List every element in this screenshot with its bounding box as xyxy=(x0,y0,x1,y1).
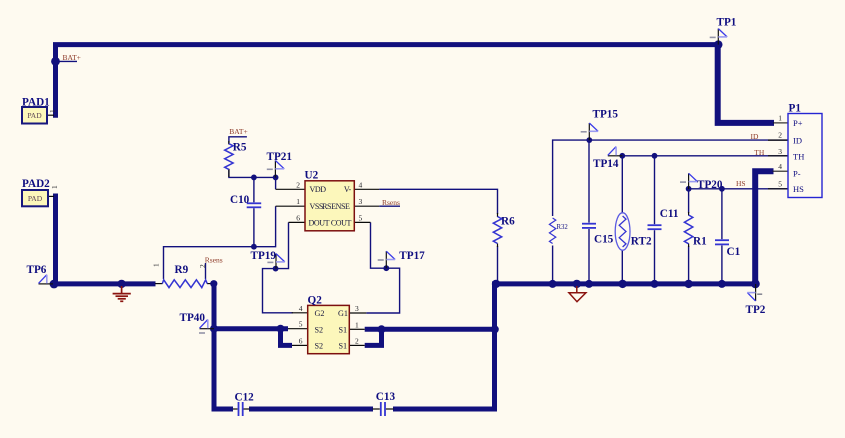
svg-text:TP17: TP17 xyxy=(399,250,425,262)
node GND-bus xyxy=(573,280,581,288)
testpoint flag TP1 xyxy=(710,29,727,45)
pin U2.1 VSS xyxy=(276,205,305,207)
pin R1 leads xyxy=(688,212,690,216)
svg-text:Q2: Q2 xyxy=(308,294,323,306)
node TP15 xyxy=(586,137,592,143)
svg-text:6: 6 xyxy=(296,213,300,222)
svg-text:4: 4 xyxy=(359,180,363,189)
ground earth (left) xyxy=(113,286,131,301)
pin U2.3 RSENSE xyxy=(354,205,379,207)
svg-text:U2: U2 xyxy=(305,170,319,182)
thermistor RT2 xyxy=(615,213,630,251)
svg-text:R9: R9 xyxy=(175,264,189,276)
svg-text:R1: R1 xyxy=(693,235,707,247)
svg-text:RT2: RT2 xyxy=(631,235,652,247)
testpoint flag TP14 xyxy=(608,147,623,156)
svg-text:TH: TH xyxy=(793,152,804,162)
svg-text:VDD: VDD xyxy=(310,185,327,194)
svg-text:TP2: TP2 xyxy=(746,304,766,316)
node TP14 xyxy=(619,153,625,159)
pin R6 leads xyxy=(497,213,499,217)
svg-text:S1: S1 xyxy=(339,325,348,334)
connector P1 body xyxy=(788,114,822,198)
svg-text:2: 2 xyxy=(778,131,782,140)
wire R9 right down and bottom row to C12 xyxy=(214,284,233,409)
svg-text:C11: C11 xyxy=(660,208,679,220)
wire PAD2 down to TP6/GND row xyxy=(56,194,156,284)
wire Q2 S2 U-loop to pin6 xyxy=(281,329,293,346)
testpoint flag TP19 xyxy=(267,254,284,269)
svg-text:PAD: PAD xyxy=(28,194,43,203)
capacitor C1 xyxy=(715,240,729,244)
wire RT2 top lead xyxy=(621,156,623,214)
svg-text:C1: C1 xyxy=(727,246,741,258)
svg-text:BAT+: BAT+ xyxy=(63,53,81,62)
resistor R9 (4-term shunt) xyxy=(162,280,207,288)
node Q2 S1 loop xyxy=(378,325,386,333)
node C15-bus xyxy=(585,280,593,288)
svg-text:R32: R32 xyxy=(557,224,569,231)
pin P1.5 xyxy=(768,188,788,190)
svg-text:V-: V- xyxy=(344,185,352,194)
node GND tap xyxy=(117,280,125,288)
node TP2 corner xyxy=(751,280,760,289)
svg-text:1: 1 xyxy=(48,109,57,113)
testpoint flag TP21 xyxy=(267,161,284,178)
node TP19 xyxy=(273,266,279,272)
svg-text:VSS: VSS xyxy=(310,202,323,211)
svg-text:2: 2 xyxy=(198,264,207,268)
testpoint flag TP40 xyxy=(200,320,215,329)
resistor R5 xyxy=(225,144,233,170)
svg-text:5: 5 xyxy=(299,320,303,329)
pin Q2.4 G2 xyxy=(292,312,308,314)
transistor Q2 body xyxy=(308,305,350,353)
svg-text:5: 5 xyxy=(778,179,782,188)
wire R5 bottom to TP21 to U2 VDD xyxy=(229,169,276,189)
pin U2.5 COUT xyxy=(354,221,370,223)
wire C11 leads xyxy=(654,156,656,224)
wire R9 right sense stub (Rsens) xyxy=(205,263,207,279)
svg-text:2: 2 xyxy=(355,336,359,345)
svg-text:6: 6 xyxy=(299,336,303,345)
wire TH net: TP14 to P1 pin3 xyxy=(622,155,788,157)
svg-text:1: 1 xyxy=(355,320,359,329)
svg-text:3: 3 xyxy=(778,147,782,156)
capacitor C10 xyxy=(247,203,262,207)
wire RT2 bottom lead xyxy=(621,250,623,284)
svg-text:COUT: COUT xyxy=(331,218,352,227)
wire C15 bottom lead xyxy=(588,229,590,284)
wire HS net: TP20 to P1 pin5 xyxy=(689,188,788,190)
svg-text:TP20: TP20 xyxy=(697,179,723,191)
wire BAT+ net stub at top rail xyxy=(56,60,78,62)
pin U2.2 VDD xyxy=(276,188,305,190)
svg-text:TP1: TP1 xyxy=(717,17,737,29)
svg-text:2: 2 xyxy=(296,180,300,189)
wire Q2 S2 row (pin5) xyxy=(214,326,288,331)
pin Q2.3 G1 xyxy=(349,312,366,314)
resistor R6 xyxy=(493,217,501,244)
pin U2.6 DOUT xyxy=(289,221,306,223)
node C10 top xyxy=(251,175,257,181)
pin P1.3 xyxy=(768,155,788,157)
wire GND bus xyxy=(492,281,758,286)
wire C13 right up to GND bus xyxy=(393,284,495,409)
wire bottom C12-C13 segment xyxy=(249,407,373,412)
svg-text:4: 4 xyxy=(299,304,303,313)
pin P1.2 xyxy=(768,139,788,141)
node R32-bus xyxy=(549,280,557,288)
svg-text:1: 1 xyxy=(778,114,782,123)
pin Q2.5 S2 xyxy=(288,328,308,330)
wire R1 bottom lead xyxy=(688,246,690,284)
node TP40 xyxy=(210,325,218,333)
pin P1.4 xyxy=(773,170,789,172)
node BAT+ stub xyxy=(51,57,60,66)
node S1-vertical xyxy=(491,325,499,333)
pin R9 leads xyxy=(155,283,162,285)
node C10 bottom xyxy=(251,244,257,250)
capacitor C13 xyxy=(381,402,385,416)
node TP21 xyxy=(273,175,279,181)
svg-text:HS: HS xyxy=(793,184,804,194)
capacitor C15 xyxy=(582,224,596,228)
op-amp U2 body xyxy=(305,181,354,231)
svg-text:PAD2: PAD2 xyxy=(22,178,50,190)
pin U2.4 V- xyxy=(354,188,379,190)
connector PAD1 body xyxy=(22,107,47,124)
node C1 top xyxy=(719,186,725,192)
svg-text:1: 1 xyxy=(50,185,59,189)
svg-text:5: 5 xyxy=(359,213,363,222)
svg-text:G1: G1 xyxy=(338,309,348,318)
svg-text:TP19: TP19 xyxy=(251,250,277,262)
svg-text:C12: C12 xyxy=(235,391,255,403)
wire TP1 down to P1 P+ xyxy=(718,42,774,123)
svg-text:TP6: TP6 xyxy=(27,264,47,276)
testpoint flag TP15 xyxy=(581,123,598,140)
svg-text:TP21: TP21 xyxy=(267,151,293,163)
svg-text:S1: S1 xyxy=(339,342,348,351)
connector PAD2 body xyxy=(22,190,48,206)
node TP20/R1 xyxy=(686,186,692,192)
pin PAD1.1 xyxy=(47,114,54,116)
node R1-bus xyxy=(684,280,692,288)
testpoint flag TP17 xyxy=(378,251,395,268)
node C1-bus xyxy=(718,280,726,288)
svg-text:TH: TH xyxy=(754,148,765,157)
wire U2 COUT to TP17 to Q2 G1 xyxy=(366,222,399,313)
svg-text:R6: R6 xyxy=(501,215,515,227)
wire U2 V- to R6 xyxy=(379,189,497,214)
svg-text:C13: C13 xyxy=(376,391,396,403)
pin P1.1 xyxy=(773,122,788,124)
wire R6 bottom to bus xyxy=(497,246,499,284)
svg-text:1: 1 xyxy=(152,263,161,267)
wire P- thick stub to P1 pin4 xyxy=(755,171,773,284)
wire U2 DOUT to TP19 to Q2 G2 xyxy=(263,222,294,312)
node TP1 xyxy=(714,40,722,48)
pin Q2.6 S2 xyxy=(292,344,308,346)
wire BAT+ top rail: PAD1 up, across top, down to P1 P+ xyxy=(56,45,719,118)
ground triangle (right) xyxy=(569,286,586,302)
node R9.2 corner xyxy=(210,280,217,287)
testpoint flag TP20 xyxy=(680,173,697,189)
svg-text:BAT+: BAT+ xyxy=(229,127,247,136)
svg-text:C15: C15 xyxy=(594,233,614,245)
node RT2-bus xyxy=(618,280,626,288)
testpoint flag TP6 xyxy=(39,275,54,284)
svg-text:P1: P1 xyxy=(789,102,802,114)
wire R1 top lead xyxy=(688,189,690,213)
node Q2 S2 loop xyxy=(277,325,285,333)
wire Q2 S1 row (pin1) to right vertical xyxy=(365,327,495,332)
svg-text:4: 4 xyxy=(778,162,782,171)
pin C13 stubs xyxy=(373,408,380,410)
svg-text:C10: C10 xyxy=(230,194,250,206)
svg-text:RSENSE: RSENSE xyxy=(322,202,350,211)
wire C1 leads xyxy=(721,189,723,239)
svg-text:Rsens: Rsens xyxy=(382,198,400,207)
wire ID net: R32 top, TP15, C15 to P1 pin2 xyxy=(553,140,788,216)
svg-text:ID: ID xyxy=(750,132,758,141)
svg-text:TP14: TP14 xyxy=(593,158,619,170)
wire C10 leads xyxy=(253,177,255,202)
node C11 top xyxy=(652,153,658,159)
svg-text:P+: P+ xyxy=(793,118,803,128)
wire C15 top lead from ID junction xyxy=(588,140,590,223)
svg-text:TP15: TP15 xyxy=(593,109,619,121)
wire Q2 S1 U-loop to pin2 xyxy=(365,329,382,345)
svg-text:PAD1: PAD1 xyxy=(22,97,50,109)
svg-text:TP40: TP40 xyxy=(180,312,206,324)
pin PAD2.1 xyxy=(48,195,54,197)
svg-text:S2: S2 xyxy=(315,325,324,334)
wire Rsens net stub at U2 pin3 xyxy=(379,205,400,207)
capacitor C11 xyxy=(648,225,662,229)
svg-text:1: 1 xyxy=(296,197,300,206)
svg-text:DOUT: DOUT xyxy=(309,218,330,227)
svg-text:PAD: PAD xyxy=(27,111,42,120)
resistor R32 xyxy=(549,218,555,244)
capacitor C12 xyxy=(239,402,243,416)
pin Q2.2 S1 xyxy=(349,344,364,346)
pin C12 stubs xyxy=(233,408,238,410)
wire BAT+ net stub at R5 xyxy=(229,137,247,144)
svg-text:G2: G2 xyxy=(315,309,325,318)
pin R5 leads xyxy=(228,141,230,145)
svg-text:R5: R5 xyxy=(233,142,247,154)
svg-text:HS: HS xyxy=(736,179,746,188)
svg-text:3: 3 xyxy=(355,304,359,313)
svg-text:Rsens: Rsens xyxy=(205,256,223,265)
svg-text:3: 3 xyxy=(359,197,363,206)
pin Q2.1 S1 xyxy=(349,328,364,330)
wire U2 VSS down to C10 bottom / R9 sense xyxy=(164,206,276,279)
resistor R1 xyxy=(684,215,692,244)
testpoint flag TP2 (down) xyxy=(747,284,762,301)
node TP17 xyxy=(383,265,389,271)
node R6/bus corner xyxy=(492,280,500,288)
svg-text:S2: S2 xyxy=(315,342,324,351)
svg-text:P-: P- xyxy=(793,169,801,179)
node C11-bus xyxy=(651,280,659,288)
wire R32 bottom to bus xyxy=(552,246,554,284)
svg-text:ID: ID xyxy=(793,136,802,146)
node TP6 xyxy=(50,280,59,289)
